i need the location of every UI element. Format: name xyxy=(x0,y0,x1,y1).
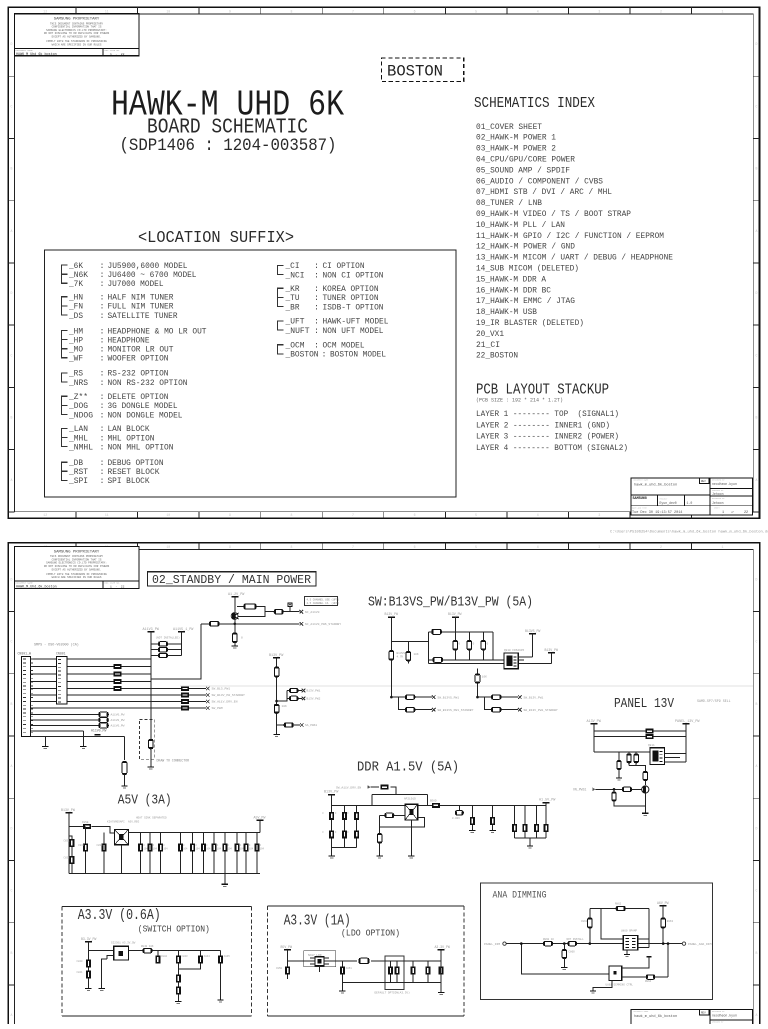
wire cap to ground xyxy=(124,775,126,786)
mosfet Q810 xyxy=(504,653,518,669)
svg-text:A6V_PW: A6V_PW xyxy=(657,901,669,905)
proprietary notice text xyxy=(44,18,110,47)
svg-text:C845: C845 xyxy=(224,955,231,958)
svg-text:10: 10 xyxy=(166,545,170,549)
svg-text::: : xyxy=(100,442,105,452)
svg-text:C: C xyxy=(755,889,757,893)
suffix group bracket _Z** xyxy=(62,396,68,414)
svg-text:12: 12 xyxy=(43,513,47,517)
svg-text:4.5 CHANNEL CA (UFT): 4.5 CHANNEL CA (UFT) xyxy=(307,601,340,605)
svg-text:10K: 10K xyxy=(482,675,487,678)
SW mid resistor R815 xyxy=(475,674,480,684)
svg-text:0: 0 xyxy=(241,637,243,640)
mosfet Q811 xyxy=(650,748,664,765)
svg-text:LAYER 2 -------- INNER1 (GND): LAYER 2 -------- INNER1 (GND) xyxy=(476,420,610,430)
ground pulldown xyxy=(616,778,622,780)
svg-text:REV: REV xyxy=(701,1012,706,1015)
svg-text:1: 1 xyxy=(721,545,723,549)
SW bus component FB802 xyxy=(433,658,443,663)
svg-text:104: 104 xyxy=(153,848,158,851)
SW top wire xyxy=(428,631,492,633)
svg-text:C: C xyxy=(10,889,12,893)
svg-text:6: 6 xyxy=(414,513,416,517)
svg-text:Jehoon: Jehoon xyxy=(712,492,724,496)
ana flag rail xyxy=(662,906,664,944)
resistor R807 xyxy=(284,723,293,727)
svg-text:0.006: 0.006 xyxy=(452,817,460,820)
svg-text:C843: C843 xyxy=(182,955,189,958)
SW double bus lower xyxy=(428,662,551,664)
svg-text:C834: C834 xyxy=(97,844,104,847)
svg-text:17_HAWK-M EMMC / JTAG: 17_HAWK-M EMMC / JTAG xyxy=(476,296,575,306)
title block text xyxy=(632,479,748,515)
svg-text:(SDP1406 : 1204-003587): (SDP1406 : 1204-003587) xyxy=(120,136,337,156)
power bar A11V0 xyxy=(95,734,101,736)
svg-text:B13V_PW: B13V_PW xyxy=(61,808,75,812)
svg-text::: : xyxy=(314,326,319,336)
svg-text:9: 9 xyxy=(229,9,231,13)
svg-text:SW_PWM: SW_PWM xyxy=(212,706,223,710)
svg-text:7: 7 xyxy=(352,9,354,13)
svg-text:_SPI: _SPI xyxy=(68,476,88,486)
svg-text:Eyun_dev0: Eyun_dev0 xyxy=(660,501,677,505)
svg-text:AP2191D: AP2191D xyxy=(404,798,416,801)
gate resistors R820 R821 xyxy=(628,752,630,754)
ana dimming box xyxy=(481,883,713,999)
svg-text:10: 10 xyxy=(166,513,170,517)
SW gate resistors R812 R813 R814 xyxy=(454,632,456,641)
a5v input wire xyxy=(69,826,115,833)
SW mid rail wire xyxy=(477,669,479,697)
svg-text:B3.3V_PW: B3.3V_PW xyxy=(81,937,96,941)
suffix group rows _6K xyxy=(68,261,196,289)
svg-text:R860 1K: R860 1K xyxy=(543,938,554,941)
ldo right caps xyxy=(412,961,414,967)
dual fuse F810 xyxy=(645,729,653,734)
transistor Q812 xyxy=(642,786,649,793)
svg-text:C833: C833 xyxy=(78,844,85,847)
wire drive rail bend to smps rail xyxy=(151,624,201,679)
svg-text:A: A xyxy=(755,764,757,768)
svg-text:2: 2 xyxy=(660,545,662,549)
svg-text:NC_A11V0: NC_A11V0 xyxy=(305,611,320,614)
resistor SW_B13V_PW1_STANDBY xyxy=(491,708,501,712)
junction B13V rail xyxy=(275,700,278,703)
svg-text:03_HAWK-M POWER 2: 03_HAWK-M POWER 2 xyxy=(476,144,556,154)
ana main wire xyxy=(506,943,682,945)
svg-text:21_CI: 21_CI xyxy=(476,340,500,350)
ldo ic pins xyxy=(310,958,329,972)
jumper JP820 xyxy=(289,688,298,692)
ground ic gate xyxy=(99,989,105,991)
base bypass loop wire xyxy=(237,607,265,617)
switch main wire xyxy=(88,942,220,988)
svg-text:SW_A11V_DRV_EN: SW_A11V_DRV_EN xyxy=(336,786,361,789)
title block dividers xyxy=(631,1010,753,1029)
svg-text:A: A xyxy=(10,478,12,482)
svg-text:(NOT INSTALLED): (NOT INSTALLED) xyxy=(156,636,181,640)
ferrite bead FB801 xyxy=(209,622,219,627)
ldo main wire xyxy=(288,950,385,979)
svg-text:_DS: _DS xyxy=(68,311,83,321)
svg-text:_NMHL: _NMHL xyxy=(68,442,93,452)
gate wire down xyxy=(629,766,645,786)
suffix group bracket _OCM xyxy=(278,345,284,354)
pcb stackup layer list xyxy=(476,409,628,453)
svg-text:1: 1 xyxy=(722,511,724,515)
svg-text:SMPS - DSO-V02000 (CA): SMPS - DSO-V02000 (CA) xyxy=(34,643,79,648)
samsung proprietary notice box xyxy=(15,14,140,56)
option box A3.3V 0.6A xyxy=(62,907,252,1017)
svg-text:R840 10K: R840 10K xyxy=(141,945,154,948)
svg-text:104: 104 xyxy=(249,848,254,851)
svg-text:Q810 FDS4935: Q810 FDS4935 xyxy=(504,649,524,652)
ground chain xyxy=(175,1002,181,1004)
svg-text:C: C xyxy=(10,104,12,108)
no-connect terminals bundle xyxy=(206,687,210,691)
SW block left rail wire xyxy=(390,617,392,697)
ana loop resistor R862 xyxy=(616,906,625,910)
svg-text:CN801_W: CN801_W xyxy=(18,652,31,656)
svg-text:<LOCATION SUFFIX>: <LOCATION SUFFIX> xyxy=(138,228,294,247)
junction SW_B13V_PW1 xyxy=(476,696,479,699)
ddr loop top wire xyxy=(372,795,428,806)
svg-text:5: 5 xyxy=(475,9,477,13)
svg-text:ANA DIMMING: ANA DIMMING xyxy=(493,891,547,902)
svg-text:BOSTON MODEL: BOSTON MODEL xyxy=(330,350,386,360)
ground under Q812 xyxy=(642,813,648,815)
svg-text:BEAD: BEAD xyxy=(430,800,437,803)
svg-text:DDR A1.5V (5A): DDR A1.5V (5A) xyxy=(357,760,459,776)
svg-text:(SWITCH OPTION): (SWITCH OPTION) xyxy=(138,925,210,935)
svg-text:16_HAWK-M DDR BC: 16_HAWK-M DDR BC xyxy=(476,285,551,295)
svg-text::: : xyxy=(100,378,105,388)
svg-text:C850: C850 xyxy=(276,967,283,970)
power flag A13V_PW xyxy=(590,723,597,725)
fuse F801 xyxy=(432,629,442,634)
svg-text:JU7000 MODEL: JU7000 MODEL xyxy=(108,279,164,289)
svg-text:9: 9 xyxy=(229,513,231,517)
svg-text:DOCUMENT NAME: DOCUMENT NAME xyxy=(634,479,650,482)
resistor R806 on B13V rail xyxy=(274,704,279,713)
suffix group bracket _6K xyxy=(62,265,68,283)
svg-text:C: C xyxy=(10,640,12,644)
svg-text:B13V_PW: B13V_PW xyxy=(269,654,284,658)
ground below transistor xyxy=(232,646,238,648)
svg-text:CN801: CN801 xyxy=(56,652,66,656)
svg-text:D: D xyxy=(10,826,12,830)
a5v left rail wire xyxy=(68,813,70,874)
ground switch right xyxy=(217,1000,223,1002)
suffix group bracket _HM xyxy=(62,331,68,358)
svg-text:7: 7 xyxy=(352,513,354,517)
suffix group rows _Z** xyxy=(68,392,182,420)
no-connect terminal NC_A11V0 xyxy=(300,610,304,614)
svg-text:C841: C841 xyxy=(77,971,84,974)
suffix group rows _RS xyxy=(68,369,187,388)
svg-text:ON_PWS1: ON_PWS1 xyxy=(573,787,586,791)
power flag PANEL_13V_PW xyxy=(682,723,689,725)
svg-text:EXCEPT AS AUTHORIZED BY SAMSUN: EXCEPT AS AUTHORIZED BY SAMSUNG. xyxy=(52,36,102,39)
svg-text:104: 104 xyxy=(163,848,168,851)
wire B13V rail xyxy=(276,658,278,734)
svg-text:18_HAWK-M USB: 18_HAWK-M USB xyxy=(476,307,537,317)
svg-text:BOSTON: BOSTON xyxy=(387,63,443,81)
ddr output bead xyxy=(432,803,440,808)
svg-text:A3.3V_PW: A3.3V_PW xyxy=(435,945,450,949)
svg-text:A: A xyxy=(755,229,757,233)
suffix group rows _DB xyxy=(68,458,163,486)
diode D801 xyxy=(288,603,292,607)
power flag A11V3_PW xyxy=(147,631,154,633)
svg-text:11: 11 xyxy=(105,9,109,13)
suffix group rows _KR xyxy=(285,284,384,312)
SW power flag left xyxy=(388,616,395,618)
page border outer frame xyxy=(8,543,759,1029)
power flag A11V5_1_PW xyxy=(178,631,185,633)
svg-text:2: 2 xyxy=(660,9,662,13)
ana ic right wires xyxy=(638,909,649,948)
page border inner frame xyxy=(14,549,753,1029)
svg-text:104: 104 xyxy=(196,848,201,851)
default option box xyxy=(385,956,404,989)
mosfet right pin wires xyxy=(518,657,532,660)
svg-text:A5V (3A): A5V (3A) xyxy=(118,793,172,809)
svg-text:_NCI: _NCI xyxy=(285,270,305,280)
resistor R830 xyxy=(385,813,394,817)
suffix group bracket _HN xyxy=(62,297,68,315)
svg-text:SCHEMATICS INDEX: SCHEMATICS INDEX xyxy=(474,96,595,112)
bridge jumper JP803 xyxy=(159,653,168,657)
capacitor C806 on B13V rail xyxy=(274,667,279,677)
title block outline xyxy=(631,1010,753,1029)
svg-text:B: B xyxy=(755,416,757,420)
ana lower left branch xyxy=(521,944,609,974)
svg-text:C832: C832 xyxy=(64,857,71,860)
wire cluster SW_B13VS_PW1 xyxy=(391,697,432,710)
svg-text:104: 104 xyxy=(228,848,233,851)
svg-text:B13V_PW: B13V_PW xyxy=(385,612,398,616)
svg-text:DATE AND TIME: DATE AND TIME xyxy=(632,507,648,510)
svg-text:U861 DIMMING CTRL: U861 DIMMING CTRL xyxy=(606,983,634,986)
svg-text:C840: C840 xyxy=(77,960,84,963)
ldo mid cap xyxy=(341,961,343,991)
connector CN801 body xyxy=(56,657,67,704)
resistor R822 on gate drop xyxy=(643,772,647,781)
no-connect SW_B13V_PW1_STANDBY xyxy=(518,708,522,712)
svg-text:REV: REV xyxy=(701,480,706,483)
svg-text:A5V_PW: A5V_PW xyxy=(254,815,266,819)
svg-text:SW_B13V_PW1_STANDBY: SW_B13V_PW1_STANDBY xyxy=(524,709,558,712)
transistor Q801 xyxy=(231,613,238,620)
resistor SW_B13VS_PW1_STANDBY xyxy=(405,708,415,712)
location suffix box xyxy=(45,250,457,497)
svg-text::: : xyxy=(100,410,105,420)
svg-text::: : xyxy=(100,354,105,364)
svg-text:08_TUNER / LNB: 08_TUNER / LNB xyxy=(476,198,542,208)
panel wires mosfet to right rail xyxy=(665,754,686,762)
samsung proprietary notice box xyxy=(15,547,140,589)
svg-text:1: 1 xyxy=(721,9,723,13)
svg-text:104: 104 xyxy=(206,848,211,851)
a5v bottom bus wire xyxy=(69,873,260,875)
svg-text:D: D xyxy=(755,291,757,295)
svg-text:104: 104 xyxy=(260,848,265,851)
svg-text:C: C xyxy=(755,353,757,357)
ddr right ground xyxy=(527,846,533,848)
svg-text:22_BOSTON: 22_BOSTON xyxy=(476,351,518,361)
svg-text:3: 3 xyxy=(598,9,600,13)
dashed option box around rail xyxy=(139,719,154,759)
note box 4.5 channel xyxy=(305,597,338,606)
bridge jumper wires row2 xyxy=(151,649,182,651)
junction ana xyxy=(563,942,566,945)
wire SW power bar down xyxy=(454,617,456,632)
svg-text:B13V_PW: B13V_PW xyxy=(324,791,339,795)
switch right rail xyxy=(220,964,222,1000)
svg-text:A: A xyxy=(755,1013,757,1017)
svg-text:A3.3V (0.6A): A3.3V (0.6A) xyxy=(78,907,161,924)
ddr bottom wire xyxy=(332,846,357,848)
svg-text:_NUFT: _NUFT xyxy=(285,326,310,336)
junction drive rail xyxy=(234,623,237,626)
wire loop to option resistor xyxy=(265,611,299,613)
svg-text:DEFAULT OPTION(A3.3V): DEFAULT OPTION(A3.3V) xyxy=(375,991,411,995)
ana ic2 U861 xyxy=(609,966,622,980)
svg-text:104: 104 xyxy=(217,848,222,851)
wire transistor emitter down xyxy=(234,620,236,634)
svg-text:A: A xyxy=(10,1013,12,1017)
SW power bar top xyxy=(452,616,459,618)
no-connect jumper outs xyxy=(302,689,306,693)
ground under C836 xyxy=(376,856,382,858)
svg-text:C: C xyxy=(755,640,757,644)
ana inner loop wire xyxy=(601,909,623,939)
svg-text:DOC SIZE NO.: DOC SIZE NO. xyxy=(105,49,121,52)
svg-text:D: D xyxy=(755,826,757,830)
svg-text:C860: C860 xyxy=(569,951,576,954)
suffix group bracket _DB xyxy=(62,462,68,480)
a5v regulator U831 xyxy=(115,829,129,844)
svg-text:D: D xyxy=(10,577,12,581)
no-connect SW_B13V_PW1 xyxy=(518,695,522,699)
svg-text:NON RS-232 OPTION: NON RS-232 OPTION xyxy=(108,378,188,388)
wire cluster SW_B13V_PW1 xyxy=(478,697,519,710)
SW bus right vertical xyxy=(492,632,494,660)
SW rail to loop wire xyxy=(391,641,428,643)
wire flag to bus xyxy=(532,634,534,657)
svg-text::: : xyxy=(322,350,327,360)
suffix group rows _OCM xyxy=(285,341,386,360)
svg-text:11_HAWK-M GPIO / I2C / FUNCTIO: 11_HAWK-M GPIO / I2C / FUNCTION / EEPROM xyxy=(476,231,664,241)
svg-text:12: 12 xyxy=(43,9,47,13)
wire emitter down xyxy=(644,793,646,813)
svg-text:HAWK_M_Uhd_6k_boston: HAWK_M_Uhd_6k_boston xyxy=(16,585,57,590)
wire left drop 1 xyxy=(44,737,46,746)
svg-text:B: B xyxy=(755,167,757,171)
svg-text:10K: 10K xyxy=(282,705,287,708)
ddr cap columns xyxy=(329,812,334,820)
svg-text:LAYER 1 -------- TOP (SIGNAL1: LAYER 1 -------- TOP (SIGNAL1) xyxy=(476,409,619,419)
ana ic2 ground xyxy=(593,980,612,990)
ana resistor R861 xyxy=(568,941,577,945)
svg-text:22: 22 xyxy=(744,511,748,515)
page border outer frame xyxy=(8,7,759,518)
ddr main rail wire xyxy=(332,804,546,806)
ground ldo mid xyxy=(339,991,345,993)
suffix group rows _LAN xyxy=(68,424,173,452)
a5v output rail wire xyxy=(128,821,260,833)
svg-text::: : xyxy=(100,476,105,486)
switch resistor R840 xyxy=(143,949,152,953)
bridge jumper JP802 xyxy=(159,648,168,652)
svg-text:B: B xyxy=(10,416,12,420)
wire A1.2V flag to transistor xyxy=(234,597,236,612)
svg-text:B13VS: B13VS xyxy=(397,652,406,655)
svg-text:8: 8 xyxy=(290,513,292,517)
svg-text:SW:B13VS_PW/B13V_PW (5A): SW:B13VS_PW/B13V_PW (5A) xyxy=(368,595,533,611)
switch cap 178 chain xyxy=(177,964,179,975)
svg-text:_NRS: _NRS xyxy=(68,378,88,388)
svg-text:B5V_PW: B5V_PW xyxy=(281,945,293,949)
svg-text::: : xyxy=(100,311,105,321)
ldo right rail wire xyxy=(342,950,441,992)
svg-text:U860 OPAMP: U860 OPAMP xyxy=(621,930,638,933)
svg-text:10K: 10K xyxy=(414,653,419,656)
ddr right bottom wire xyxy=(515,837,547,839)
svg-text:DRAW TO CONNECTOR: DRAW TO CONNECTOR xyxy=(157,759,190,763)
svg-text:_BOSTON: _BOSTON xyxy=(285,350,319,360)
panel bus lower wire xyxy=(594,736,686,738)
ana input port xyxy=(503,942,506,945)
svg-text:7: 7 xyxy=(352,545,354,549)
svg-text:NC_A11V0_PWS_STANDBY: NC_A11V0_PWS_STANDBY xyxy=(305,623,341,626)
bridge jumper wires row1 xyxy=(151,643,182,645)
svg-text:07_HDMI STB / DVI / ARC / MHL: 07_HDMI STB / DVI / ARC / MHL xyxy=(476,187,612,197)
svg-text:SW_A11V_DRV_EN: SW_A11V_DRV_EN xyxy=(212,700,238,704)
switch branch wire xyxy=(178,964,200,970)
svg-text:SAMSUNG PROPRIETARY: SAMSUNG PROPRIETARY xyxy=(54,18,100,22)
svg-text:LAYER 4 -------- BOTTOM (SIGNA: LAYER 4 -------- BOTTOM (SIGNAL2) xyxy=(476,443,628,453)
ground ana pulldown xyxy=(561,968,567,970)
schematics index list xyxy=(476,122,673,361)
power flag B13V_PW mid xyxy=(273,657,280,659)
svg-text:(LDO OPTION): (LDO OPTION) xyxy=(341,929,400,939)
ldo outline box xyxy=(304,951,336,967)
svg-text:11: 11 xyxy=(105,513,109,517)
junction base pulldown xyxy=(613,788,616,791)
power flag B13VS_PW out xyxy=(529,633,536,635)
no-connect terminal NC drive xyxy=(300,622,304,626)
pulldown resistor R823 xyxy=(618,752,620,761)
svg-text:PANEL_13V_PW: PANEL_13V_PW xyxy=(675,720,700,724)
svg-text:5: 5 xyxy=(475,545,477,549)
SW double bus upper xyxy=(428,659,505,661)
svg-text:C: C xyxy=(755,104,757,108)
switch left caps xyxy=(86,960,91,968)
bridge left rail wire xyxy=(150,632,152,767)
svg-text:PCB LAYOUT STACKUP: PCB LAYOUT STACKUP xyxy=(476,383,609,399)
option box A3.3V 1A xyxy=(268,906,464,1016)
wire resistor to ground xyxy=(234,643,236,646)
svg-text:LAYER 3 -------- INNER2 (POWER: LAYER 3 -------- INNER2 (POWER) xyxy=(476,432,619,442)
svg-text:B13VS_PW: B13VS_PW xyxy=(525,629,540,633)
resistor SW_B13VS_PW1 xyxy=(405,695,415,699)
svg-text:Jehoon: Jehoon xyxy=(712,501,724,505)
svg-text:DOCUMENT NAME: DOCUMENT NAME xyxy=(634,1010,650,1013)
svg-text:SW_B13_PW1: SW_B13_PW1 xyxy=(212,687,231,691)
svg-text:C861: C861 xyxy=(581,920,588,923)
